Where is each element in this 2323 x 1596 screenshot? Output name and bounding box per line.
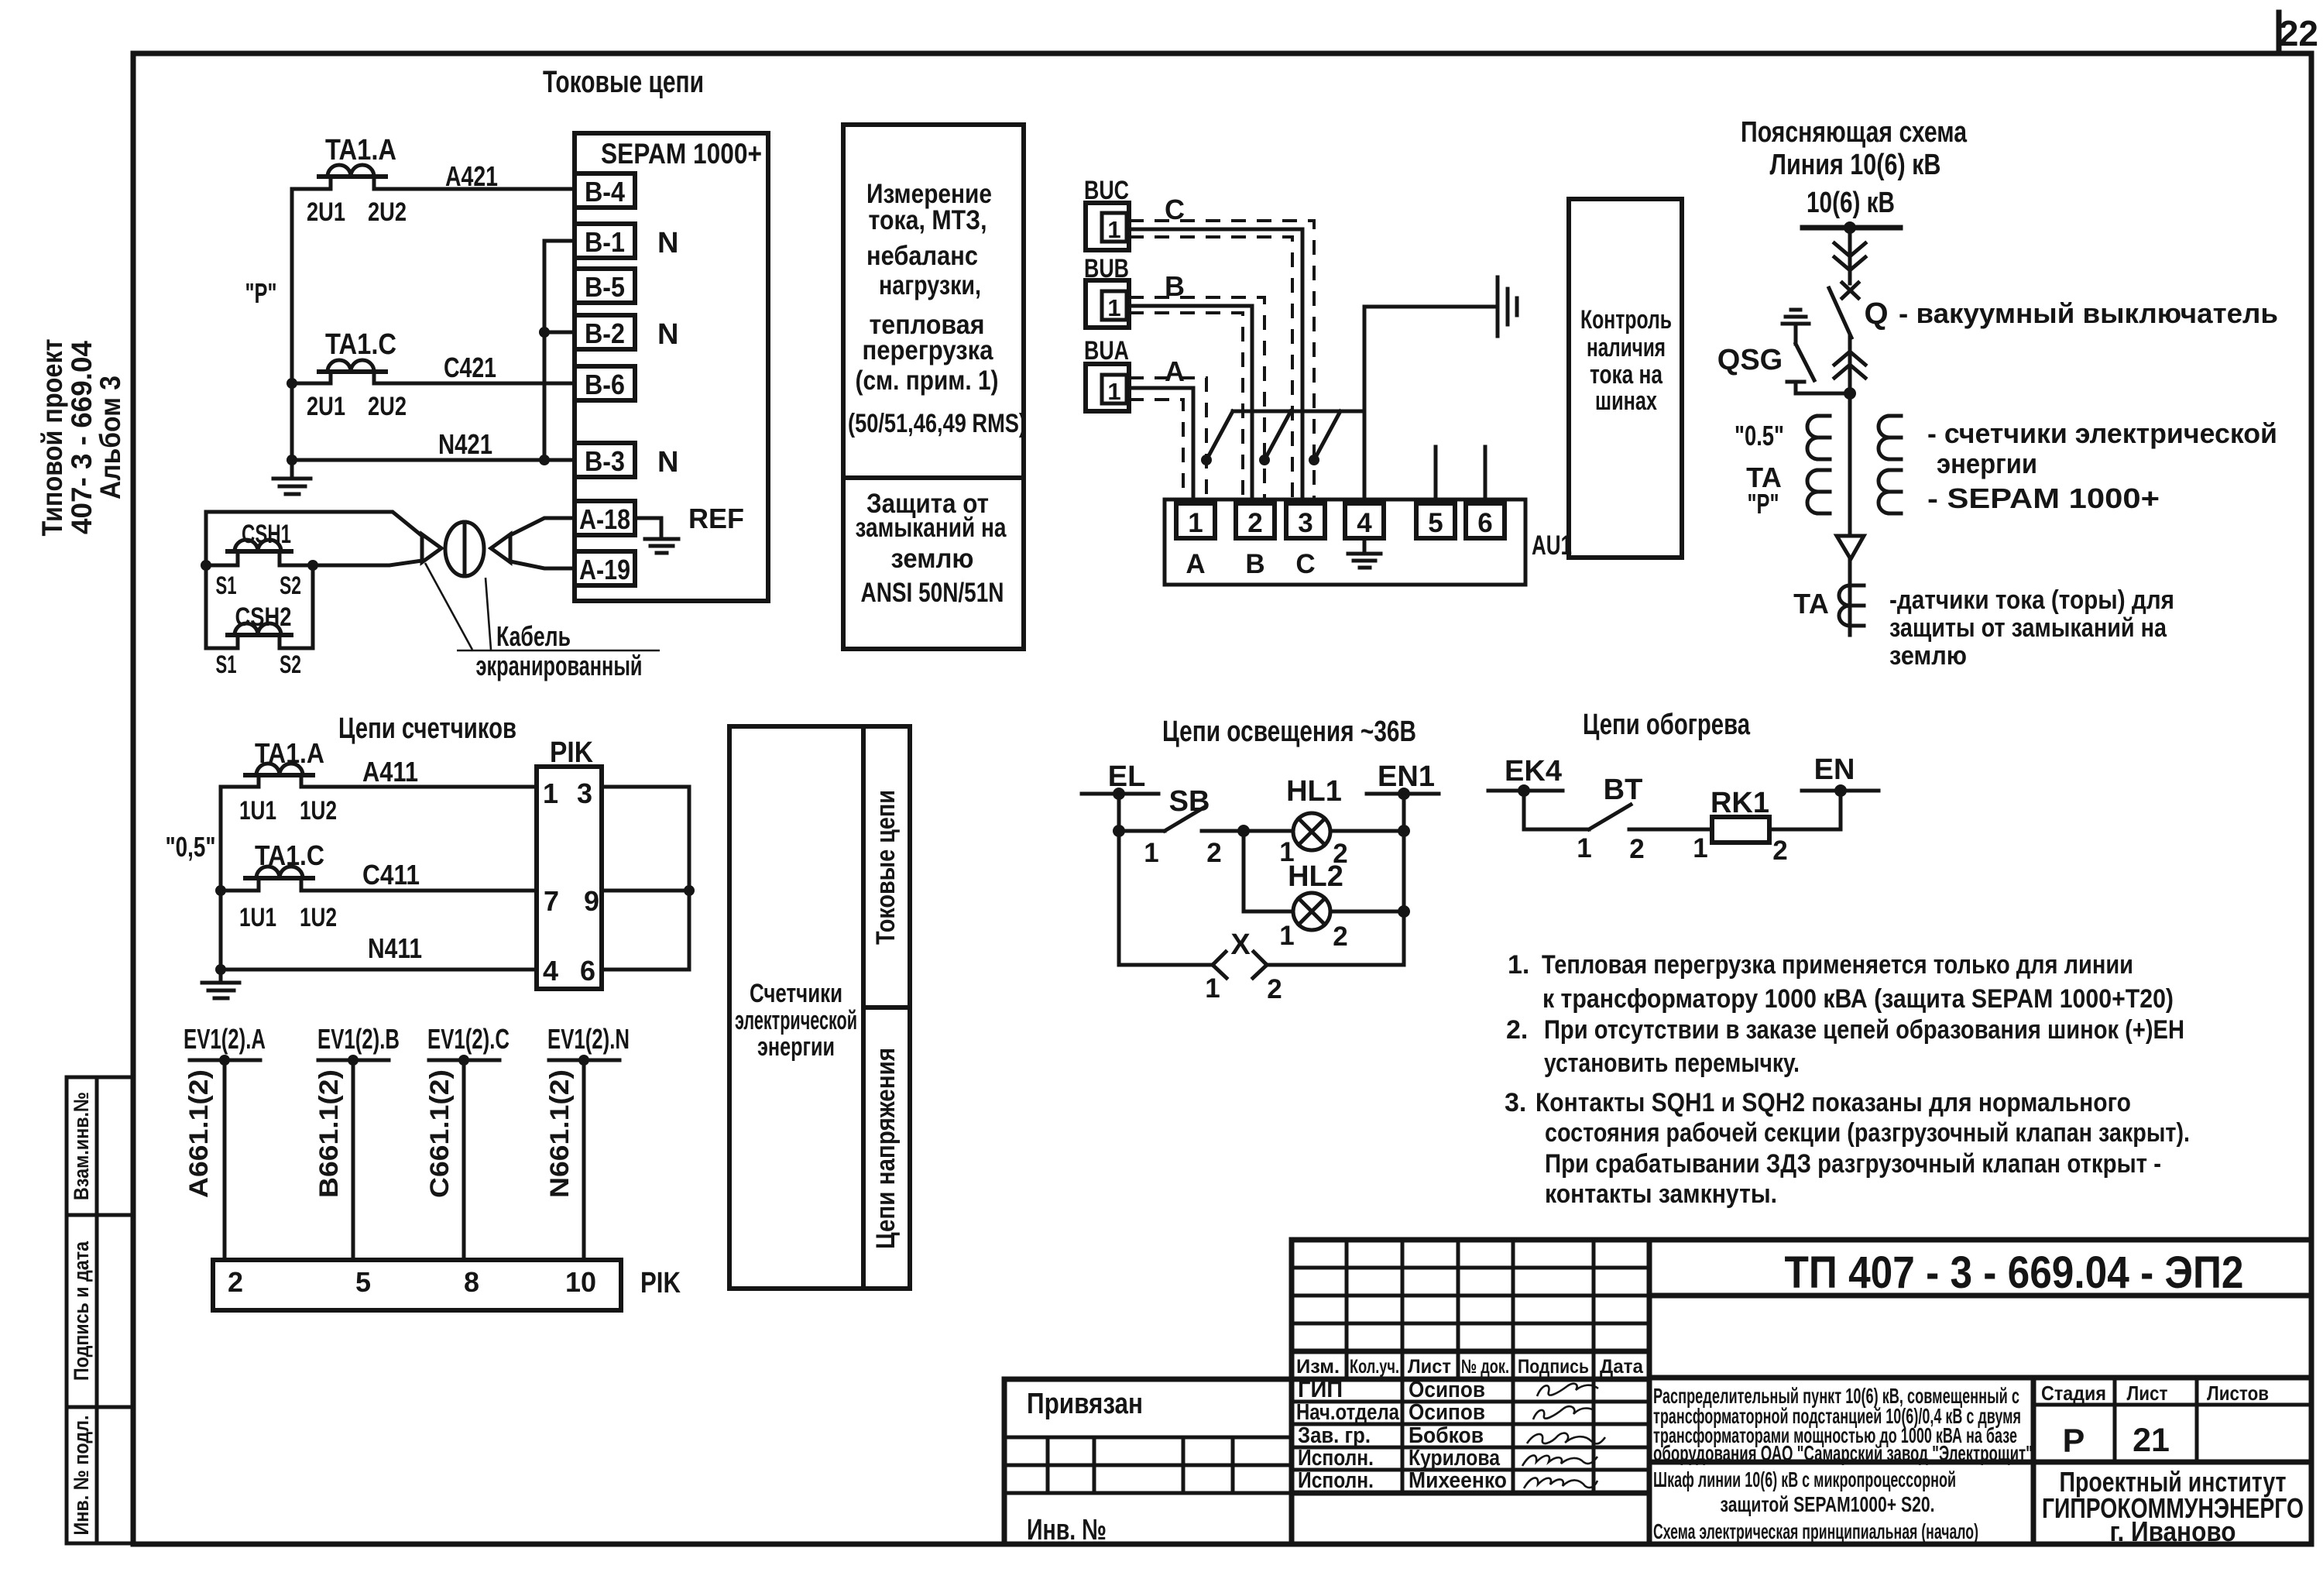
terminal EV1(2).C xyxy=(427,1023,510,1066)
svg-text:тока, МТЗ,: тока, МТЗ, xyxy=(869,205,987,235)
svg-text:RK1: RK1 xyxy=(1711,787,1769,819)
signature squiggle row2 xyxy=(1533,1406,1594,1419)
svg-text:2.: 2. xyxy=(1506,1015,1528,1045)
svg-text:1: 1 xyxy=(1577,833,1591,863)
svg-text:HL2: HL2 xyxy=(1288,860,1343,893)
terminal EL xyxy=(1082,760,1158,800)
svg-text:7: 7 xyxy=(544,885,559,917)
wire SB to HL1 to EN1 xyxy=(1237,825,1410,837)
svg-text:2: 2 xyxy=(1772,836,1787,866)
REF ground symbol xyxy=(635,518,678,553)
ground symbol (sideways) xyxy=(1498,277,1517,336)
wire A411 xyxy=(221,756,537,788)
signature squiggle row4 xyxy=(1522,1455,1597,1466)
svg-text:Лист: Лист xyxy=(2127,1381,2168,1405)
pin S2 (CSH1) xyxy=(280,571,301,599)
svg-text:замыканий на: замыканий на xyxy=(856,513,1007,543)
connector X right fork xyxy=(1253,952,1267,978)
svg-text:контакты замкнуты.: контакты замкнуты. xyxy=(1545,1179,1777,1209)
breaker chevrons up xyxy=(1834,352,1865,378)
sensor BUA xyxy=(1084,336,1129,411)
svg-text:Нач.отдела: Нач.отдела xyxy=(1296,1400,1400,1425)
metering left bus xyxy=(215,787,226,975)
node label N at B-2 xyxy=(657,318,678,351)
wire C411 xyxy=(221,859,537,891)
AU1 terminal 3 xyxy=(1286,503,1325,538)
svg-text:- вакуумный выключатель: - вакуумный выключатель xyxy=(1899,297,2278,329)
svg-text:1: 1 xyxy=(1107,216,1120,243)
explanatory one-line diagram title xyxy=(1741,116,1968,181)
toroid CT CSH2 xyxy=(228,602,292,648)
svg-text:C661.1(2): C661.1(2) xyxy=(425,1069,455,1198)
svg-text:Подпись: Подпись xyxy=(1518,1356,1589,1378)
svg-text:2: 2 xyxy=(1247,508,1262,538)
svg-text:Контакты SQH1 и SQH2 показан: Контакты SQH1 и SQH2 показаны для нормал… xyxy=(1536,1088,2131,1117)
svg-text:N421: N421 xyxy=(438,428,492,460)
svg-text:A421: A421 xyxy=(445,160,498,192)
svg-text:"Р": "Р" xyxy=(1748,488,1779,520)
main feeder line xyxy=(1848,228,1852,635)
phase label C under terminal 3 xyxy=(1295,549,1315,579)
svg-text:EV1(2).B: EV1(2).B xyxy=(317,1023,400,1055)
QSG ground symbol xyxy=(1783,310,1809,344)
svg-text:1U1: 1U1 xyxy=(239,903,276,932)
RK1 pin 1 xyxy=(1693,833,1707,863)
PIK pin 7 xyxy=(544,885,559,917)
svg-text:S1: S1 xyxy=(216,650,237,678)
svg-text:B-2: B-2 xyxy=(585,317,625,349)
AU1 label xyxy=(1532,530,1572,561)
terminal strip PIK xyxy=(537,736,602,989)
svg-text:Подпись и дата: Подпись и дата xyxy=(70,1241,93,1381)
CT coil left column top xyxy=(1807,416,1830,459)
svg-text:2U2: 2U2 xyxy=(368,197,407,227)
terminal A-19 xyxy=(575,551,635,585)
svg-text:X: X xyxy=(1230,928,1251,961)
accuracy label "0,5" xyxy=(166,831,216,863)
title block outer lines xyxy=(1004,1240,2311,1544)
terminal B-3 xyxy=(575,443,635,477)
svg-text:6: 6 xyxy=(1477,508,1492,538)
svg-text:Взам.инв.№: Взам.инв.№ xyxy=(70,1092,93,1200)
svg-text:21: 21 xyxy=(2133,1422,2170,1459)
svg-text:B-3: B-3 xyxy=(585,445,625,477)
phase label C xyxy=(1165,194,1185,225)
svg-text:Поясняющая схема: Поясняющая схема xyxy=(1741,116,1968,149)
svg-text:A661.1(2): A661.1(2) xyxy=(184,1069,214,1198)
svg-text:C421: C421 xyxy=(444,352,496,383)
QSG blade xyxy=(1796,344,1814,380)
svg-text:3: 3 xyxy=(1298,508,1312,538)
terminal EK4 xyxy=(1488,755,1563,797)
svg-text:N: N xyxy=(657,318,678,351)
left vertical bus wire xyxy=(287,189,297,465)
svg-text:ТП 407 - 3 - 669.04 - ЭП2: ТП 407 - 3 - 669.04 - ЭП2 xyxy=(1785,1248,2244,1298)
ground symbol (metering) xyxy=(202,970,239,998)
wire BUC to AU1-3 xyxy=(1129,229,1302,503)
zero-sequence CT coil on line xyxy=(1839,585,1864,626)
svg-text:N: N xyxy=(657,446,678,479)
wire N421 xyxy=(292,428,575,460)
pin 1U2 xyxy=(300,796,337,825)
svg-text:Кабель: Кабель xyxy=(496,620,571,652)
HL2 pin 1 xyxy=(1279,921,1294,951)
HL2 pin 2 xyxy=(1333,922,1347,952)
incoming double chevron xyxy=(1834,243,1865,270)
svg-text:8: 8 xyxy=(464,1266,479,1298)
svg-text:к трансформатору 1000 кВА (защ: к трансформатору 1000 кВА (защита SEPAM … xyxy=(1542,984,2174,1014)
terminal B-6 xyxy=(575,366,635,400)
svg-text:- SEPAM 1000+: - SEPAM 1000+ xyxy=(1927,482,2160,514)
label Q xyxy=(1864,297,1888,331)
wire to shielded cable bottom xyxy=(313,561,422,565)
PIK pin 1 xyxy=(543,777,558,809)
svg-text:Цепи обогрева: Цепи обогрева xyxy=(1583,709,1751,741)
ground under terminal 4 xyxy=(1348,538,1381,568)
svg-text:Осипов: Осипов xyxy=(1409,1400,1485,1425)
svg-text:SB: SB xyxy=(1169,785,1210,818)
branch to HL2 xyxy=(1244,831,1404,911)
svg-text:1: 1 xyxy=(1279,921,1294,951)
svg-text:PIK: PIK xyxy=(550,736,593,769)
wire B661.1(2) xyxy=(314,1060,353,1260)
svg-text:S1: S1 xyxy=(216,571,237,599)
wire AU1-4 to ground xyxy=(1364,307,1498,503)
svg-text:Токовые цепи: Токовые цепи xyxy=(543,65,704,99)
svg-text:B: B xyxy=(1245,549,1264,579)
terminal A-18 xyxy=(575,501,635,535)
svg-text:ТА: ТА xyxy=(1793,588,1829,620)
svg-text:Лист: Лист xyxy=(1408,1356,1451,1378)
svg-text:B661.1(2): B661.1(2) xyxy=(314,1069,344,1198)
screen dashed BUC outer xyxy=(1129,221,1319,503)
phase label A xyxy=(1165,355,1185,387)
X pin 1 xyxy=(1205,973,1220,1004)
svg-text:установить перемычку.: установить перемычку. xyxy=(1544,1049,1800,1078)
Инв. № cell xyxy=(1027,1514,1107,1546)
svg-text:"0,5": "0,5" xyxy=(166,831,216,863)
svg-text:QSG: QSG xyxy=(1717,344,1783,376)
svg-text:A: A xyxy=(1165,355,1185,387)
metering right return bus xyxy=(602,787,695,970)
pin 1U1 xyxy=(239,796,276,825)
screen dashed BUB inner xyxy=(1129,313,1243,503)
terminal strip PIK (voltage) xyxy=(213,1260,621,1310)
current transformer TA1.A (metering) xyxy=(245,737,324,787)
svg-text:Бобков: Бобков xyxy=(1409,1423,1484,1448)
bus label 10(6) кВ xyxy=(1807,187,1895,219)
function box: Измерение тока / Защита xyxy=(843,125,1026,649)
svg-text:Шкаф линии 10(6) кВ с микропро: Шкаф линии 10(6) кВ с микропроцессорной xyxy=(1653,1467,1956,1491)
svg-text:PIK: PIK xyxy=(640,1267,681,1299)
HL1 pin 2 xyxy=(1333,839,1347,869)
svg-text:N: N xyxy=(657,227,678,259)
AU1 terminal 2 xyxy=(1236,503,1275,538)
svg-text:Исполн.: Исполн. xyxy=(1298,1446,1374,1471)
relay SEPAM 1000+ box xyxy=(575,133,768,601)
SB pin 1 xyxy=(1144,838,1158,868)
svg-text:энергии: энергии xyxy=(757,1032,835,1062)
svg-text:SEPAM 1000+: SEPAM 1000+ xyxy=(601,138,762,170)
svg-text:Инв. №: Инв. № xyxy=(1027,1514,1107,1546)
phase label B under terminal 2 xyxy=(1245,549,1264,579)
wire N661.1(2) xyxy=(545,1060,584,1260)
lamp HL1 xyxy=(1286,775,1342,850)
svg-text:Счетчики: Счетчики xyxy=(750,979,842,1008)
pin S2 (CSH2) xyxy=(280,650,301,678)
svg-text:Типовой проект: Типовой проект xyxy=(36,339,68,537)
svg-text:A-18: A-18 xyxy=(579,503,630,535)
annotation SEPAM 1000+ xyxy=(1927,482,2160,514)
svg-text:№ док.: № док. xyxy=(1461,1356,1509,1378)
svg-text:Привязан: Привязан xyxy=(1027,1388,1143,1420)
svg-text:A411: A411 xyxy=(362,756,418,788)
svg-text:1U1: 1U1 xyxy=(239,796,276,825)
svg-text:Изм.: Изм. xyxy=(1296,1356,1340,1378)
svg-text:1: 1 xyxy=(1107,294,1120,321)
document number cell xyxy=(1649,1248,2311,1298)
svg-text:При срабатывании ЗДЗ разгрузоч: При срабатывании ЗДЗ разгрузочный клапан… xyxy=(1545,1149,2161,1179)
svg-text:2U2: 2U2 xyxy=(368,392,407,421)
current transformer TA1.C xyxy=(319,328,396,383)
CT coil right column top xyxy=(1879,416,1901,459)
svg-text:-датчики тока (торы) для: -датчики тока (торы) для xyxy=(1889,585,2174,615)
annotation vacuum breaker xyxy=(1899,297,2278,329)
svg-text:Зав. гр.: Зав. гр. xyxy=(1298,1423,1371,1448)
svg-text:C411: C411 xyxy=(362,859,420,891)
N bus vertical wire xyxy=(539,241,575,465)
rotated label Токовые цепи xyxy=(871,790,901,945)
svg-text:REF: REF xyxy=(688,503,744,534)
svg-text:Тепловая перегрузка применяетс: Тепловая перегрузка применяется только д… xyxy=(1542,950,2133,980)
svg-text:экранированный: экранированный xyxy=(476,650,643,681)
svg-text:Кол.уч.: Кол.уч. xyxy=(1350,1356,1399,1378)
pin 1U2 (TA1.C) xyxy=(300,903,337,932)
label "P" xyxy=(1748,488,1779,520)
screen dashed BUB outer xyxy=(1129,297,1270,503)
pin S1 (CSH2) xyxy=(216,650,237,678)
svg-text:1: 1 xyxy=(1188,508,1203,538)
svg-text:5: 5 xyxy=(1428,508,1443,538)
svg-text:Цепи освещения ~36В: Цепи освещения ~36В xyxy=(1162,716,1416,748)
screen dashed BUC inner xyxy=(1129,237,1292,503)
svg-text:5: 5 xyxy=(355,1266,371,1298)
wire A661.1(2) xyxy=(184,1060,225,1260)
label TA (zero-sequence CT) xyxy=(1793,588,1829,620)
terminal B-1 xyxy=(575,224,635,258)
svg-text:"Р": "Р" xyxy=(245,277,277,309)
stage header labels xyxy=(2041,1381,2269,1405)
svg-text:наличия: наличия xyxy=(1587,333,1666,362)
annotation electricity meters xyxy=(1927,417,2277,479)
svg-text:При отсутствии в заказе цепей: При отсутствии в заказе цепей образовани… xyxy=(1544,1015,2184,1045)
wire A421 xyxy=(292,160,575,192)
pin label 2U2 xyxy=(368,197,407,227)
svg-text:EV1(2).A: EV1(2).A xyxy=(184,1023,266,1055)
svg-text:Курилова: Курилова xyxy=(1409,1446,1501,1471)
svg-text:2: 2 xyxy=(1333,922,1347,952)
PIK label (voltage strip) xyxy=(640,1267,681,1299)
node label "P" xyxy=(245,277,277,309)
terminal B-2 xyxy=(575,315,635,349)
switch BT xyxy=(1589,774,1712,829)
svg-text:4: 4 xyxy=(543,955,558,987)
ground symbol (current circuits) xyxy=(273,460,311,494)
svg-text:Линия 10(6) кВ: Линия 10(6) кВ xyxy=(1770,149,1941,181)
svg-text:S2: S2 xyxy=(280,650,301,678)
svg-text:2U1: 2U1 xyxy=(307,197,345,227)
busbar 10(6) kV xyxy=(1803,221,1900,234)
svg-text:2: 2 xyxy=(1267,974,1282,1004)
terminal block AU1 xyxy=(1165,499,1525,585)
pin label 2U1 (TA1.C) xyxy=(307,392,345,421)
section title: Цепи освещения ~36В xyxy=(1162,716,1416,748)
connector X label xyxy=(1230,928,1251,961)
svg-text:BUA: BUA xyxy=(1084,336,1129,366)
terminal B-4 xyxy=(575,173,635,208)
svg-text:нагрузки,: нагрузки, xyxy=(879,270,981,300)
svg-text:2: 2 xyxy=(1629,834,1644,864)
accuracy label "0.5" xyxy=(1735,420,1784,451)
notes text xyxy=(1505,950,2190,1209)
svg-text:AU1: AU1 xyxy=(1532,530,1572,561)
sheet name text xyxy=(1653,1467,1978,1543)
label Инв. № подл. xyxy=(70,1416,93,1536)
svg-text:защиты от замыканий на: защиты от замыканий на xyxy=(1889,613,2167,643)
phase label B xyxy=(1165,270,1185,302)
svg-text:Токовые цепи: Токовые цепи xyxy=(871,790,901,945)
wire to shielded cable top xyxy=(206,512,422,536)
section title: Токовые цепи xyxy=(543,65,704,99)
terminal EN xyxy=(1802,753,1879,797)
svg-text:(50/51,46,49 RMS): (50/51,46,49 RMS) xyxy=(848,409,1026,438)
sheet number 22 tick mark xyxy=(2277,12,2282,53)
PIK pin 4 xyxy=(543,955,558,987)
svg-text:шинах: шинах xyxy=(1595,386,1657,416)
PIK pin 6 xyxy=(580,955,595,987)
svg-text:1: 1 xyxy=(1107,378,1120,405)
svg-text:9: 9 xyxy=(584,885,599,917)
svg-text:22: 22 xyxy=(2279,13,2318,53)
svg-text:1: 1 xyxy=(1144,838,1158,868)
svg-text:2: 2 xyxy=(1206,838,1221,868)
BT pin 2 xyxy=(1629,834,1644,864)
X pin 2 xyxy=(1267,974,1282,1004)
svg-text:1U2: 1U2 xyxy=(300,903,337,932)
label TA xyxy=(1746,462,1782,493)
terminal EV1(2).N xyxy=(547,1023,630,1066)
svg-text:3: 3 xyxy=(577,777,592,809)
wire cable to A-19 xyxy=(510,561,575,568)
EK4 down wire xyxy=(1524,791,1589,829)
svg-text:Инв. № подл.: Инв. № подл. xyxy=(70,1416,93,1536)
annotation ground-fault current sensors xyxy=(1889,585,2174,671)
description and stage cells xyxy=(1649,1378,2311,1544)
svg-text:(см. прим. 1): (см. прим. 1) xyxy=(856,366,999,396)
wire cable to A-18 xyxy=(510,518,575,535)
svg-text:B-4: B-4 xyxy=(585,176,625,208)
svg-text:землю: землю xyxy=(1889,641,1967,671)
svg-text:N661.1(2): N661.1(2) xyxy=(545,1069,575,1198)
svg-text:TA1.A: TA1.A xyxy=(325,134,396,166)
svg-text:Р: Р xyxy=(2063,1423,2085,1460)
svg-text:Листов: Листов xyxy=(2207,1381,2269,1405)
svg-text:1U2: 1U2 xyxy=(300,796,337,825)
wire RK1 to EN xyxy=(1769,791,1841,829)
wire C421 xyxy=(292,352,575,383)
PIK pin 9 xyxy=(584,885,599,917)
svg-text:10: 10 xyxy=(565,1266,596,1298)
svg-text:Альбом 3: Альбом 3 xyxy=(94,376,126,499)
AU1 terminal 6 xyxy=(1466,503,1505,538)
svg-text:Контроль: Контроль xyxy=(1580,305,1672,335)
svg-text:TA1.C: TA1.C xyxy=(325,328,396,361)
switch SB xyxy=(1119,785,1244,831)
rotated label Цепи напряжения xyxy=(871,1048,901,1249)
svg-text:- счетчики электрической: - счетчики электрической xyxy=(1927,417,2277,449)
pin S1 (CSH1) xyxy=(216,571,237,599)
left attribute boxes column xyxy=(67,1077,133,1543)
breaker Q blade xyxy=(1829,288,1851,338)
svg-text:защитой SEPAM1000+ S20.: защитой SEPAM1000+ S20. xyxy=(1721,1492,1935,1516)
current transformer TA1.A xyxy=(319,134,396,189)
stub above terminal 6 xyxy=(1484,447,1487,503)
svg-text:1.: 1. xyxy=(1508,950,1529,980)
cable termination triangle xyxy=(1837,536,1864,559)
Привязан cell xyxy=(1004,1388,1292,1493)
svg-text:A-19: A-19 xyxy=(579,554,630,585)
svg-text:2U1: 2U1 xyxy=(307,392,345,421)
bottom wire with connector X xyxy=(1119,963,1404,967)
svg-text:CSH1: CSH1 xyxy=(242,520,291,549)
svg-text:небаланс: небаланс xyxy=(866,241,978,271)
svg-text:10(6) кВ: 10(6) кВ xyxy=(1807,187,1895,219)
signature squiggle row1 xyxy=(1537,1384,1598,1396)
svg-text:EV1(2).N: EV1(2).N xyxy=(547,1023,630,1055)
revision table rows xyxy=(1292,1268,1649,1493)
svg-text:EK4: EK4 xyxy=(1505,755,1562,788)
terminal EN1 xyxy=(1367,760,1439,800)
node label REF xyxy=(688,503,744,534)
svg-text:электрической: электрической xyxy=(735,1006,857,1035)
svg-text:Q: Q xyxy=(1864,297,1888,331)
PIK pin 3 xyxy=(577,777,592,809)
svg-text:Осипов: Осипов xyxy=(1409,1378,1485,1402)
svg-text:6: 6 xyxy=(580,955,595,987)
svg-text:4: 4 xyxy=(1357,508,1372,538)
QSG contact and wire xyxy=(1787,382,1856,400)
RK1 pin 2 xyxy=(1772,836,1787,866)
earthing switch QSG label xyxy=(1717,344,1783,376)
SB pin 2 xyxy=(1206,838,1221,868)
svg-text:состояния рабочей секции (разг: состояния рабочей секции (разгрузочный к… xyxy=(1545,1118,2190,1148)
terminal B-5 xyxy=(575,269,635,303)
revision header labels xyxy=(1296,1356,1644,1378)
svg-text:Михеенко: Михеенко xyxy=(1409,1468,1507,1493)
svg-text:оборудования ОАО "Самарский за: оборудования ОАО "Самарский завод "Элект… xyxy=(1653,1441,2033,1465)
svg-text:N411: N411 xyxy=(368,932,422,964)
EN1 vertical wire xyxy=(1398,794,1410,965)
svg-text:землю: землю xyxy=(891,544,974,574)
box Счетчики электрической энергии xyxy=(729,726,910,1289)
svg-text:2: 2 xyxy=(228,1266,243,1298)
terminal EV1(2).B xyxy=(317,1023,400,1066)
node label N at B-1 xyxy=(657,227,678,259)
wire BUB to AU1-2 xyxy=(1129,306,1252,503)
AU1 terminal 1 xyxy=(1176,503,1215,538)
svg-text:тока на: тока на xyxy=(1590,360,1663,390)
svg-text:"0.5": "0.5" xyxy=(1735,420,1784,451)
